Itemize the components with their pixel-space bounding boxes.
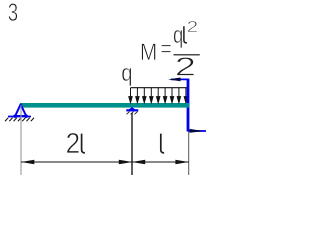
svg-text:2: 2: [187, 17, 199, 35]
dim arrow middle pointing left: [132, 160, 146, 165]
dim arrow left end: [21, 160, 34, 165]
dim arrow right end: [175, 160, 188, 165]
beam overlap patch at right end: [186, 103, 189, 108]
svg-text:q: q: [121, 59, 132, 86]
dimension label l: [161, 134, 164, 153]
pin support A hatching: [5, 118, 34, 122]
roller support B ground line: [126, 109, 138, 111]
moment couple top arrow: [168, 78, 188, 82]
dim arrow middle pointing right: [119, 160, 133, 165]
fraction bar: [174, 54, 200, 55]
extension line left: [20, 105, 22, 175]
numerator l: [184, 26, 187, 43]
moment couple vertical line: [187, 79, 190, 132]
dimension label l of 2l: [82, 134, 85, 153]
svg-text:M: M: [140, 39, 157, 66]
beam: [21, 103, 190, 108]
roller support B hatching: [127, 112, 138, 115]
distributed load q top line: [130, 87, 188, 89]
svg-text:2: 2: [66, 127, 81, 160]
extension line middle: [131, 113, 133, 175]
roller support B triangle: [129, 108, 136, 111]
extension line right: [188, 132, 190, 175]
pin support A ground line: [8, 116, 31, 118]
svg-text:=: =: [161, 35, 172, 63]
svg-text:2: 2: [175, 53, 196, 81]
svg-text:q: q: [173, 22, 183, 49]
pin support A right foot: [25, 115, 28, 118]
pin support A left foot: [13, 115, 16, 118]
pin support A triangle: [15, 104, 26, 116]
dimension line: [21, 161, 189, 163]
distributed load arrows: [129, 88, 188, 103]
moment couple bottom arrow: [188, 129, 206, 133]
svg-text:3: 3: [8, 0, 18, 27]
